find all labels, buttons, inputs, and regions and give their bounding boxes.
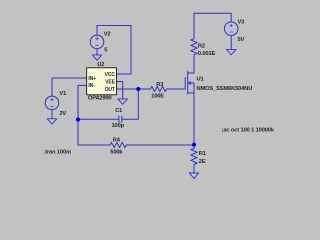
wire OUT to node xyxy=(117,88,139,90)
svg-text:NMOS_SSM6K504NU: NMOS_SSM6K504NU xyxy=(197,86,253,92)
svg-text:5: 5 xyxy=(104,47,107,53)
capacitor C1 xyxy=(78,118,119,120)
wire V2 top to VCC xyxy=(97,26,131,75)
svg-text:V1: V1 xyxy=(59,91,66,97)
op-amp U2 xyxy=(87,68,117,95)
wire V1 top to IN+ xyxy=(52,78,87,96)
node source junction xyxy=(192,143,196,147)
wire V2 bottom to ground xyxy=(96,49,98,55)
svg-text:IN-: IN- xyxy=(88,83,95,89)
ground below V2 xyxy=(92,55,102,60)
svg-text:VEE: VEE xyxy=(105,79,115,85)
svg-text:V3: V3 xyxy=(238,19,245,25)
svg-text:0.001E: 0.001E xyxy=(198,51,216,57)
wire VEE to ground xyxy=(117,82,123,99)
wire V1 bottom to ground xyxy=(51,110,53,119)
nmos transistor U1 xyxy=(185,71,194,94)
wire V3 bottom to ground xyxy=(230,36,232,50)
voltage source V2 xyxy=(90,35,104,49)
ground below V3 xyxy=(226,49,236,54)
node OUT junction xyxy=(136,87,140,91)
svg-text:R1: R1 xyxy=(199,151,206,157)
svg-text:R2: R2 xyxy=(198,43,205,49)
svg-text:U1: U1 xyxy=(197,77,204,83)
svg-text:100E: 100E xyxy=(151,93,164,99)
resistor R4 xyxy=(78,142,194,147)
svg-text:5V: 5V xyxy=(238,37,245,43)
svg-text:OUT: OUT xyxy=(105,87,115,93)
svg-text:;ac oct 100 1 10000k: ;ac oct 100 1 10000k xyxy=(222,128,275,134)
ground at VEE xyxy=(118,99,128,104)
svg-text:2E: 2E xyxy=(199,159,206,165)
svg-text:R4: R4 xyxy=(113,138,121,144)
svg-text:IN+: IN+ xyxy=(88,76,96,82)
svg-text:U2: U2 xyxy=(97,62,104,68)
wire top rail xyxy=(194,13,231,22)
svg-text:R3: R3 xyxy=(156,82,163,88)
svg-text:V2: V2 xyxy=(104,31,111,37)
svg-text:2V: 2V xyxy=(59,111,66,117)
voltage source V3 xyxy=(224,22,238,36)
resistor R3 xyxy=(138,86,185,91)
svg-text:C1: C1 xyxy=(115,108,122,114)
svg-text:VCC: VCC xyxy=(105,72,116,78)
resistor R1 xyxy=(191,145,197,173)
svg-text:100p: 100p xyxy=(112,123,125,129)
svg-text:500k: 500k xyxy=(110,149,123,155)
svg-text:.tran 100m: .tran 100m xyxy=(44,150,71,156)
wire source column xyxy=(193,83,195,145)
voltage source V1 xyxy=(45,96,59,110)
svg-text:OPA2990: OPA2990 xyxy=(88,96,112,102)
resistor R2 xyxy=(191,13,197,73)
wire IN- feedback xyxy=(78,85,87,145)
ground below V1 xyxy=(47,119,57,124)
ground below R1 xyxy=(189,173,199,178)
node feedback junction xyxy=(76,117,80,121)
